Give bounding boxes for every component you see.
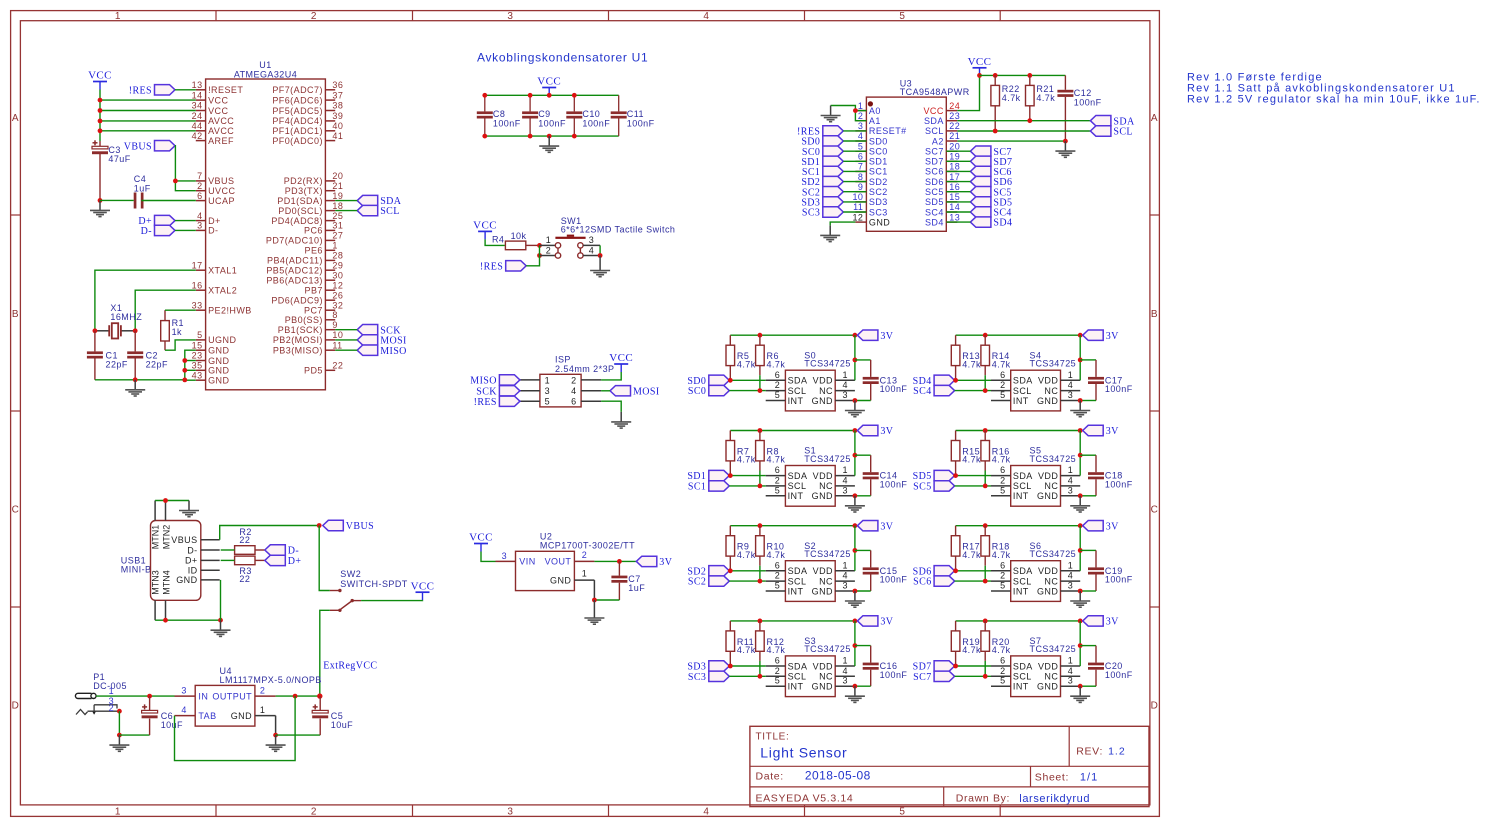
wire VDD riser (1079, 526, 1081, 571)
S6 pin 6 SDA (991, 570, 1011, 572)
junction GND node S5 (1078, 493, 1083, 498)
ground (U2) (584, 600, 604, 624)
svg-text:1/1: 1/1 (1080, 771, 1098, 783)
wire C16 to GND pin (855, 685, 871, 687)
svg-text:D+: D+ (288, 556, 302, 567)
SW2 common pivot (352, 600, 361, 602)
svg-text:4.7k: 4.7k (737, 359, 756, 369)
svg-text:1: 1 (546, 235, 551, 245)
wire SD2 to U3 (843, 181, 866, 183)
resistor R6 (756, 345, 765, 365)
svg-text:4: 4 (197, 211, 202, 221)
junction bottom C10 (572, 134, 577, 139)
wire SC3 to S3 SCL (729, 675, 765, 677)
R19 bottom lead (955, 651, 957, 666)
wire SD5 to S5 SDA (955, 475, 991, 477)
C6 leads (149, 696, 151, 710)
svg-text:14: 14 (192, 90, 203, 100)
U3 pin 6 SD1 (855, 160, 866, 162)
svg-text:TCS34725: TCS34725 (804, 549, 851, 559)
svg-text:SC5: SC5 (925, 187, 944, 197)
U1 pin 28 PB4(ADC11) (325, 259, 335, 261)
svg-text:SC2: SC2 (688, 577, 706, 588)
svg-text:D-: D- (208, 226, 218, 236)
svg-text:4: 4 (858, 131, 863, 141)
svg-text:TCS34725: TCS34725 (1030, 549, 1077, 559)
svg-text:NC: NC (819, 386, 833, 396)
U3 pin 8 SD2 (855, 181, 866, 183)
C2 leads (134, 331, 136, 352)
net flag SC0 at U3 left (823, 146, 844, 156)
svg-text:100nF: 100nF (1105, 670, 1133, 680)
svg-text:!RES: !RES (474, 397, 497, 408)
C16 leads (870, 646, 872, 663)
wire USB MTN bottom (155, 619, 220, 621)
wire !RES to U1 pin 13 (175, 89, 196, 91)
R15 bottom lead (955, 461, 957, 476)
svg-text:VBUS: VBUS (171, 535, 197, 545)
IC U3 body (866, 97, 946, 231)
svg-text:2: 2 (775, 666, 780, 676)
svg-text:SC0: SC0 (869, 147, 888, 157)
svg-text:INT: INT (1013, 682, 1029, 692)
U3 pin 15 SD5 (946, 201, 957, 203)
svg-text:22: 22 (239, 574, 250, 584)
junction R14/SCL (983, 388, 988, 393)
resistor R7 (726, 441, 735, 461)
S7 pin 1 VDD (1061, 665, 1081, 667)
svg-text:SWITCH-SPDT: SWITCH-SPDT (340, 579, 407, 589)
svg-text:3: 3 (589, 235, 594, 245)
net flag SCL at U1 (357, 205, 378, 215)
svg-text:MCP1700T-3002E/TT: MCP1700T-3002E/TT (540, 541, 635, 551)
C5 leads (319, 696, 321, 710)
svg-text:VOUT: VOUT (545, 557, 572, 567)
connector USB1 body (151, 521, 201, 601)
svg-text:1: 1 (842, 560, 847, 570)
svg-text:C: C (12, 505, 20, 516)
junction top rail R12 (758, 619, 763, 624)
svg-text:ExtRegVCC: ExtRegVCC (323, 661, 377, 672)
svg-text:5: 5 (545, 397, 550, 407)
svg-text:9: 9 (332, 320, 337, 330)
ground (below C3) (90, 200, 110, 216)
junction top C8 (482, 93, 487, 98)
IC S5 body (1011, 466, 1061, 507)
svg-text:15: 15 (949, 192, 960, 202)
net flag SD6 (934, 566, 955, 576)
wire U3 to SD6 (946, 181, 970, 183)
wire C18 to GND pin (1080, 495, 1096, 497)
ISP pin 3 (520, 390, 540, 392)
ground (S2) (845, 591, 865, 607)
net flag 3V (S7) (1083, 616, 1104, 626)
wire VCC to U1 pin 14 (100, 99, 196, 101)
ground (U3 pin12) (820, 225, 840, 241)
svg-text:23: 23 (192, 351, 203, 361)
S4 pin 1 VDD (1061, 379, 1081, 381)
svg-text:6: 6 (775, 465, 780, 475)
USB1 pin ID (201, 569, 220, 571)
svg-text:26: 26 (332, 290, 343, 300)
net flag SC3 (709, 671, 730, 681)
svg-text:27: 27 (332, 231, 343, 241)
S4 pin 5 INT (991, 400, 1011, 402)
svg-text:PB2(MOSI): PB2(MOSI) (273, 335, 323, 345)
wire VCC to SW2 common (361, 599, 422, 601)
svg-text:SC6: SC6 (925, 167, 944, 177)
net flag SD3 (709, 661, 730, 671)
frame tick marks (215, 11, 217, 21)
U3 pin 2 A1 (855, 120, 866, 122)
junction riser/C20 (1078, 643, 1083, 648)
svg-text:41: 41 (332, 131, 343, 141)
net flag MISO at ISP (499, 375, 520, 385)
svg-text:GND: GND (869, 217, 890, 227)
svg-text:MISO: MISO (470, 376, 497, 387)
IC S7 body (1011, 656, 1061, 697)
wire U4 gnd to C5 (276, 734, 321, 736)
wire UCAP net (100, 199, 134, 201)
svg-text:SD1: SD1 (869, 157, 888, 167)
svg-text:15: 15 (192, 340, 203, 350)
svg-text:SDA: SDA (924, 116, 944, 126)
resistor R14 (981, 345, 990, 365)
net flag SC2 at U3 left (823, 187, 844, 197)
C17 leads (1095, 360, 1097, 377)
wire C20 to GND pin (1080, 685, 1096, 687)
wire S0 3V top rail (730, 334, 855, 336)
U1 pin 44 AVCC (196, 130, 206, 132)
wire SC2 to S2 SCL (729, 580, 765, 582)
wire riser to C18 (1080, 454, 1096, 456)
svg-text:AVCC: AVCC (208, 126, 234, 136)
net flag VBUS at U1 (155, 141, 176, 151)
wire SC6 to S6 SCL (955, 580, 991, 582)
svg-text:7: 7 (858, 162, 863, 172)
svg-text:18: 18 (332, 201, 343, 211)
svg-text:16: 16 (192, 280, 203, 290)
svg-text:TCA9548APWR: TCA9548APWR (900, 87, 970, 97)
svg-text:SD2: SD2 (869, 177, 888, 187)
svg-text:23: 23 (949, 111, 960, 121)
svg-text:SCL: SCL (788, 672, 807, 682)
svg-text:4.7k: 4.7k (1002, 93, 1021, 103)
junction riser/C17 (1078, 358, 1083, 363)
C20 leads (1095, 646, 1097, 663)
svg-text:21: 21 (949, 131, 960, 141)
junction VCC pin34 (98, 108, 103, 113)
junction U2 gnd (592, 598, 597, 603)
svg-text:10k: 10k (511, 231, 527, 241)
junction R6/SCL (758, 388, 763, 393)
junction P1 gnd (117, 733, 122, 738)
switch SW1 contacts (540, 244, 556, 246)
svg-text:5: 5 (1000, 485, 1005, 495)
net flag 3V (S2) (857, 521, 878, 531)
U1 pin 30 PB6(ADC13) (325, 279, 335, 281)
svg-text:MOSI: MOSI (633, 386, 660, 397)
svg-text:37: 37 (332, 90, 343, 100)
svg-text:44: 44 (192, 121, 203, 131)
svg-text:B: B (12, 309, 19, 320)
svg-text:A0: A0 (869, 106, 881, 116)
svg-text:24: 24 (192, 111, 203, 121)
svg-text:6*6*12SMD Tactile Switch: 6*6*12SMD Tactile Switch (561, 225, 676, 235)
U3 pin 16 SC5 (946, 191, 957, 193)
junction top rail VDD (853, 523, 858, 528)
U1 pin 26 PD6(ADC9) (325, 299, 335, 301)
svg-text:1: 1 (858, 101, 863, 111)
svg-text:XTAL2: XTAL2 (208, 286, 237, 296)
junction top rail R14 (983, 333, 988, 338)
wire U3 to SD5 (946, 201, 970, 203)
USB1 pin MTN2 (165, 501, 167, 521)
wire U3 A2 to ground (957, 140, 1065, 142)
S2 pin 1 VDD (835, 570, 855, 572)
junction C2 ground (133, 377, 138, 382)
svg-text:SCL: SCL (788, 481, 807, 491)
junction top rail R6 (758, 333, 763, 338)
wire pin18 to SCL (335, 210, 357, 212)
svg-text:VDD: VDD (813, 471, 833, 481)
wire VCC to U1 pin 24 (100, 120, 196, 122)
junction top rail R18 (983, 523, 988, 528)
capacitor C1 (87, 351, 103, 354)
wire ISP pin4 to MOSI (601, 390, 610, 392)
U1 pin 35 GND (196, 369, 206, 371)
svg-text:OUTPUT: OUTPUT (212, 691, 252, 701)
S4 pin 3 GND (1061, 400, 1081, 402)
svg-text:4: 4 (181, 705, 186, 715)
svg-text:4: 4 (703, 11, 709, 22)
svg-text:INT: INT (788, 491, 804, 501)
R17 bottom lead (955, 556, 957, 571)
net flag SC4 at U3 right (970, 207, 991, 217)
svg-text:2: 2 (1000, 380, 1005, 390)
wire U3 to SC6 (946, 170, 970, 172)
wire SD0 to S0 SDA (729, 379, 765, 381)
ground (USB bottom) (211, 620, 231, 636)
svg-text:SC3: SC3 (688, 672, 706, 683)
net flag !RES at U1 (155, 85, 176, 95)
svg-text:VCC: VCC (469, 532, 493, 544)
svg-text:IN: IN (198, 691, 208, 701)
C15 leads (870, 550, 872, 567)
svg-text:2: 2 (546, 246, 551, 256)
svg-text:VCC: VCC (968, 56, 992, 68)
U1 pin 3 D- (196, 229, 206, 231)
U3 pin 20 SC7 (946, 150, 957, 152)
connector P1 barrel pin (75, 693, 91, 698)
net flag MOSI at ISP (610, 386, 631, 396)
net flag SCK at U1 (357, 325, 378, 335)
S6 pin 1 VDD (1061, 570, 1081, 572)
svg-text:4.7k: 4.7k (767, 550, 786, 560)
wire U3 SCL net (957, 130, 1090, 132)
svg-text:PF6(ADC6): PF6(ADC6) (272, 95, 323, 105)
wire SC3 to U3 (843, 211, 866, 213)
svg-text:SD4: SD4 (925, 217, 944, 227)
svg-text:VCC: VCC (537, 76, 561, 88)
svg-text:3: 3 (1068, 581, 1073, 591)
C19 leads (1095, 550, 1097, 567)
SW2 bottom contact (330, 609, 340, 611)
svg-text:22pF: 22pF (146, 359, 168, 369)
svg-text:Avkoblingskondensatorer U1: Avkoblingskondensatorer U1 (477, 51, 648, 65)
junction R5/SDA (728, 378, 733, 383)
svg-text:4.7k: 4.7k (1036, 93, 1055, 103)
U3 pin 11 SC3 (855, 211, 866, 213)
svg-text:A2: A2 (932, 136, 944, 146)
wire SD3 to S3 SDA (729, 665, 765, 667)
ground (S3) (845, 686, 865, 702)
svg-text:AVCC: AVCC (208, 116, 234, 126)
svg-text:13: 13 (949, 212, 960, 222)
net flag SC2 (709, 576, 730, 586)
wire decoupling top rail (485, 94, 619, 96)
S1 pin 6 SDA (766, 475, 786, 477)
U3 pin 5 SC0 (855, 150, 866, 152)
resistor R15 (951, 441, 960, 461)
ground (S7) (1070, 686, 1090, 702)
U1 pin 9 PB1(SCK) (325, 329, 335, 331)
net flag SDA at U3 (1090, 116, 1111, 126)
svg-text:3V: 3V (659, 557, 672, 568)
junction bottom gnd (547, 134, 552, 139)
svg-text:MTN3: MTN3 (151, 570, 161, 595)
wire VCC pullup rail (980, 74, 1066, 76)
ISP pin 6 (581, 400, 601, 402)
resistor R18 (981, 536, 990, 556)
svg-text:PB6(ADC13): PB6(ADC13) (266, 276, 323, 286)
junction riser/C19 (1078, 548, 1083, 553)
S0 pin 2 SCL (766, 390, 786, 392)
svg-text:SC6: SC6 (913, 577, 931, 588)
svg-text:SCL: SCL (788, 576, 807, 586)
wire VBUS to SW2 top contact (319, 526, 330, 591)
net flag SCL at U3 (1090, 126, 1111, 136)
svg-text:SDA: SDA (1013, 471, 1033, 481)
junction top rail R16 (983, 428, 988, 433)
junction bottom C8 (482, 134, 487, 139)
C1 leads (94, 331, 96, 352)
wire C15 to GND pin (855, 590, 871, 592)
svg-text:D+: D+ (208, 216, 221, 226)
wire SD7 to S7 SDA (955, 665, 991, 667)
svg-text:A1: A1 (869, 116, 881, 126)
svg-text:NC: NC (1044, 386, 1058, 396)
svg-text:4: 4 (703, 806, 709, 817)
U1 pin 31 PC6 (325, 229, 335, 231)
svg-text:GND: GND (231, 711, 252, 721)
svg-text:SDA: SDA (788, 566, 808, 576)
net flag SDA at U1 (357, 195, 378, 205)
net flag SC5 (934, 481, 955, 491)
R18 top lead (984, 526, 986, 536)
wire VCC to U2 VIN (481, 552, 496, 562)
svg-text:SC2: SC2 (869, 187, 888, 197)
U1 pin 36 PF7(ADC7) (325, 89, 335, 91)
wire SD6 to S6 SDA (955, 570, 991, 572)
net flag D+ at U1 (155, 215, 176, 225)
svg-text:GND: GND (812, 396, 833, 406)
svg-text:SC4: SC4 (925, 207, 944, 217)
svg-text:100nF: 100nF (880, 384, 908, 394)
junction X1 left (93, 328, 98, 333)
svg-text:3: 3 (545, 386, 550, 396)
U1 pin 22 PD5 (325, 369, 335, 371)
svg-text:4.7k: 4.7k (962, 550, 981, 560)
U1 pin 13 !RESET (196, 89, 206, 91)
svg-text:40: 40 (332, 121, 343, 131)
svg-text:2: 2 (1000, 475, 1005, 485)
svg-text:1: 1 (332, 241, 337, 251)
junction R7/SDA (728, 473, 733, 478)
junction SCL/R22 (993, 129, 998, 134)
svg-text:VDD: VDD (1038, 566, 1058, 576)
wire !RES to U3 (843, 130, 866, 132)
C7 bottom lead (618, 583, 620, 600)
resistor R5 (726, 345, 735, 365)
resistor R13 (951, 345, 960, 365)
svg-text:MTN1: MTN1 (151, 525, 161, 550)
net flag MISO at U1 (357, 345, 378, 355)
junction USB gnd bottom (218, 618, 223, 623)
R11 bottom lead (729, 651, 731, 666)
svg-text:6: 6 (775, 560, 780, 570)
svg-text:SCL: SCL (380, 206, 400, 217)
svg-text:SDA: SDA (788, 376, 808, 386)
capacitor C4 (134, 193, 137, 209)
junction riser/C14 (853, 453, 858, 458)
ISP pin 4 (581, 390, 601, 392)
junction bottom C9 (528, 134, 533, 139)
capacitor C9 (522, 111, 538, 114)
R3 leads (221, 559, 235, 561)
junction top rail VDD (1078, 523, 1083, 528)
svg-text:SDA: SDA (1013, 661, 1033, 671)
svg-text:PB1(SCK): PB1(SCK) (278, 325, 323, 335)
wire SC1 to U3 (843, 170, 866, 172)
svg-text:INT: INT (788, 682, 804, 692)
wire U3 to SD7 (946, 160, 970, 162)
svg-text:NC: NC (819, 576, 833, 586)
svg-text:PB3(MISO): PB3(MISO) (273, 346, 323, 356)
U3 pin 22 SCL (946, 130, 957, 132)
ISP pin 1 (520, 379, 540, 381)
junction top rail R8 (758, 428, 763, 433)
ground (S1) (845, 496, 865, 512)
wire !RES to pin2 (526, 256, 539, 266)
wire C17 to GND pin (1080, 400, 1096, 402)
wire pin9 to SCK (335, 329, 357, 331)
svg-text:1: 1 (1068, 560, 1073, 570)
svg-text:18: 18 (949, 162, 960, 172)
svg-text:5: 5 (1000, 581, 1005, 591)
svg-text:19: 19 (949, 152, 960, 162)
net flag SD7 at U3 right (970, 156, 991, 166)
svg-text:6: 6 (1000, 370, 1005, 380)
wire U3 to SC7 (946, 150, 970, 152)
svg-text:INT: INT (788, 586, 804, 596)
svg-text:TCS34725: TCS34725 (1030, 359, 1077, 369)
S3 pin 3 GND (835, 685, 855, 687)
ground (S6) (1070, 591, 1090, 607)
svg-text:SCL: SCL (788, 386, 807, 396)
wire SD2 to S2 SDA (729, 570, 765, 572)
svg-text:!RESET: !RESET (208, 85, 243, 95)
